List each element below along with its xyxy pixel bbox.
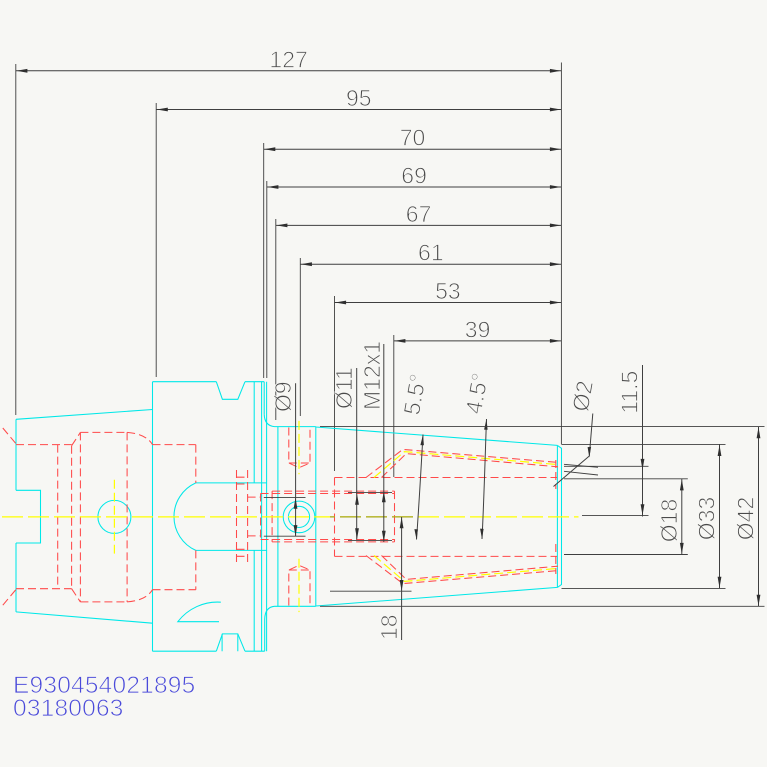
dia2 hole edges bbox=[564, 464, 598, 467]
set screw axes bbox=[298, 421, 300, 474]
dia42 dimension bbox=[758, 427, 760, 607]
svg-text:70: 70 bbox=[400, 125, 426, 151]
capsule recess bbox=[174, 483, 196, 551]
dimension 53 bbox=[335, 278, 562, 471]
svg-text:127: 127 bbox=[269, 46, 307, 72]
collet pocket (hidden) bbox=[335, 460, 558, 574]
dimension 127 bbox=[16, 46, 562, 415]
shank internal cavity (hidden) bbox=[3, 428, 196, 605]
svg-text:Ø9: Ø9 bbox=[270, 381, 296, 412]
dimension 70 bbox=[264, 125, 562, 378]
collet slot lines (yellow) bbox=[374, 452, 558, 478]
HSK shank outline bbox=[16, 410, 153, 624]
svg-text:Ø42: Ø42 bbox=[733, 497, 759, 540]
hole circles at body bbox=[288, 506, 309, 527]
dia33 dimension bbox=[719, 444, 721, 588]
11.5 dimension bbox=[564, 465, 649, 467]
svg-text:Ø18: Ø18 bbox=[656, 499, 682, 542]
svg-text:11.5: 11.5 bbox=[617, 371, 643, 414]
svg-text:Ø11: Ø11 bbox=[331, 367, 357, 409]
svg-text:95: 95 bbox=[346, 85, 372, 111]
svg-text:18: 18 bbox=[376, 614, 402, 640]
coolant tube (hidden) bbox=[237, 470, 248, 563]
body and collet nut outline bbox=[275, 427, 562, 607]
dimension 67 bbox=[276, 201, 562, 420]
4.5 degree leader bbox=[482, 419, 487, 539]
svg-text:61: 61 bbox=[418, 240, 444, 266]
dimension 69 bbox=[267, 163, 562, 379]
5.5 degree leader bbox=[417, 435, 424, 540]
svg-text:53: 53 bbox=[435, 278, 461, 304]
M12x1 dimension bbox=[383, 344, 385, 542]
svg-text:Ø33: Ø33 bbox=[694, 497, 720, 540]
dia11 dimension bbox=[356, 368, 358, 540]
svg-text:4.5°: 4.5° bbox=[460, 371, 493, 416]
svg-text:39: 39 bbox=[465, 316, 491, 342]
right extension line bbox=[560, 63, 562, 445]
svg-text:03180063: 03180063 bbox=[13, 695, 124, 722]
central bore and thread (hidden) bbox=[248, 491, 395, 542]
cross hole axis bbox=[113, 480, 115, 554]
set screw hole top bbox=[289, 428, 310, 468]
dia18 dimension bbox=[681, 479, 683, 555]
dimension 39 bbox=[394, 316, 562, 477]
svg-text:Ø2: Ø2 bbox=[567, 379, 598, 414]
svg-text:M12x1: M12x1 bbox=[359, 341, 385, 410]
dia2 leader bbox=[554, 414, 593, 487]
dia9 dimension bbox=[295, 383, 297, 536]
svg-text:67: 67 bbox=[406, 201, 432, 227]
dia18 extension lines bbox=[564, 478, 688, 480]
cross hole circle in flange bbox=[98, 500, 131, 533]
collet taper (hidden) bbox=[366, 449, 558, 583]
dia33 extension lines bbox=[562, 443, 726, 445]
svg-text:69: 69 bbox=[401, 163, 427, 189]
dimension 61 bbox=[300, 240, 561, 416]
dimension 95 bbox=[156, 85, 561, 377]
set screw hole bottom bbox=[289, 565, 310, 605]
flange outline bbox=[153, 382, 275, 652]
svg-text:5.5°: 5.5° bbox=[398, 372, 431, 417]
18 dimension bbox=[401, 517, 403, 640]
main centerline bbox=[2, 516, 579, 518]
dia42 extension lines bbox=[320, 426, 765, 428]
